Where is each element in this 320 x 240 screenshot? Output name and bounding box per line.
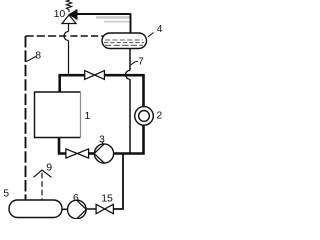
svg-text:5: 5 — [3, 188, 9, 200]
svg-text:3: 3 — [99, 133, 105, 145]
svg-text:1: 1 — [85, 110, 91, 122]
svg-text:15: 15 — [101, 192, 113, 204]
svg-text:2: 2 — [156, 109, 162, 121]
svg-text:8: 8 — [35, 50, 41, 62]
svg-text:9: 9 — [46, 161, 52, 173]
svg-text:6: 6 — [73, 192, 79, 204]
svg-text:10: 10 — [54, 8, 66, 20]
svg-text:7: 7 — [138, 56, 144, 68]
svg-text:4: 4 — [157, 23, 163, 35]
